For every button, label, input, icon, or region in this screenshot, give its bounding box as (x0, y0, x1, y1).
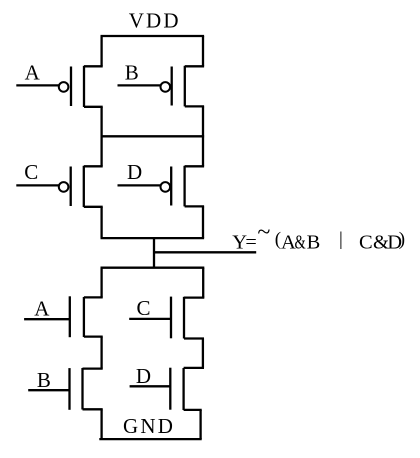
svg-text:|: | (339, 229, 343, 250)
svg-text:C: C (24, 160, 38, 184)
svg-text:GND: GND (123, 414, 175, 438)
svg-text:): ) (399, 229, 405, 250)
svg-text:B: B (37, 368, 51, 392)
svg-text:A: A (25, 61, 41, 85)
svg-text:B: B (125, 61, 139, 85)
svg-text:D: D (136, 364, 151, 388)
svg-text:~: ~ (257, 220, 270, 246)
svg-text:VDD: VDD (129, 9, 181, 33)
svg-text:B: B (307, 232, 321, 254)
svg-text:C: C (137, 296, 151, 320)
svg-text:D: D (127, 160, 142, 184)
svg-text:C: C (359, 232, 373, 254)
svg-text:A: A (34, 296, 50, 320)
svg-text:&: & (295, 232, 306, 254)
svg-text:=: = (245, 232, 256, 254)
